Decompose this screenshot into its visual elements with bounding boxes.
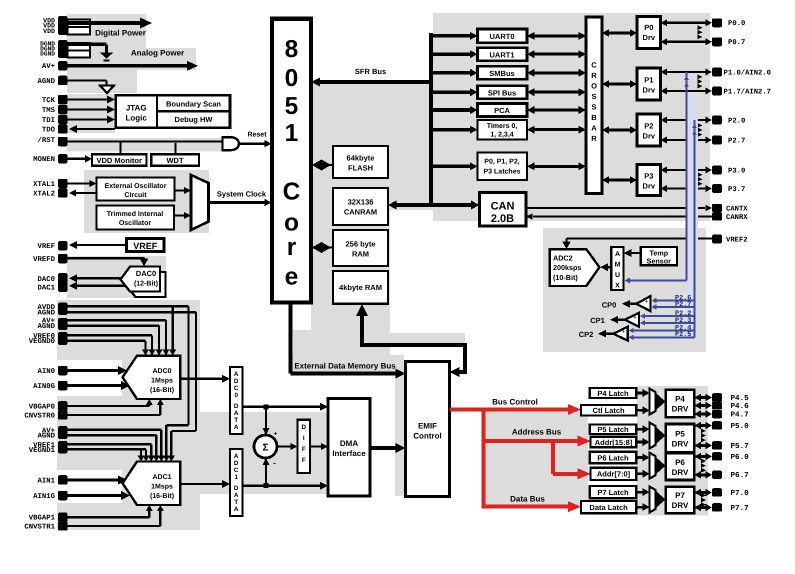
clock mux bbox=[191, 175, 209, 230]
svg-text:C: C bbox=[234, 385, 239, 392]
svg-text:o: o bbox=[284, 210, 299, 237]
wire P5 latch b to funnel bbox=[636, 438, 649, 446]
pin P1.0/AIN2.0 bbox=[712, 68, 771, 78]
svg-text:C: C bbox=[283, 179, 301, 206]
pin AGND bbox=[37, 76, 67, 86]
svg-text:DRV: DRV bbox=[672, 405, 689, 414]
svg-text:Data Bus: Data Bus bbox=[510, 495, 545, 504]
pin P6.7 bbox=[712, 471, 749, 481]
svg-text:CANTX: CANTX bbox=[726, 205, 748, 213]
wire P0 pin top bbox=[661, 19, 713, 26]
pin TCK bbox=[42, 95, 68, 105]
label P2.7 bbox=[675, 301, 691, 309]
block ADC1 DATA bbox=[230, 449, 243, 516]
wire PCA to crossbar bbox=[527, 106, 586, 114]
wire latches to crossbar bbox=[527, 162, 586, 170]
wire UART0 to crossbar bbox=[527, 32, 586, 40]
block Addr[7:0] bbox=[591, 468, 637, 480]
svg-text:(16-Bit): (16-Bit) bbox=[150, 386, 174, 394]
pin P0.0 bbox=[712, 18, 745, 28]
reset gate bbox=[223, 137, 240, 150]
wire TCK bbox=[68, 96, 116, 104]
wire CP1 out bbox=[610, 316, 625, 324]
svg-text:Interface: Interface bbox=[332, 449, 366, 458]
svg-text:F: F bbox=[302, 446, 306, 453]
svg-text:Bus Control: Bus Control bbox=[492, 398, 538, 407]
block P7 DRV bbox=[666, 487, 695, 514]
label P2.5 bbox=[675, 331, 691, 339]
wire /RST bbox=[68, 140, 224, 142]
pin VREF bbox=[37, 241, 67, 251]
wire CP0 out bbox=[622, 300, 636, 308]
wire UART1 to crossbar bbox=[527, 50, 586, 58]
svg-text:1: 1 bbox=[234, 474, 238, 481]
label P2.3 bbox=[675, 317, 691, 325]
svg-text:D: D bbox=[302, 424, 307, 431]
svg-text:AGND: AGND bbox=[37, 433, 55, 441]
blue wire P2.2 bbox=[640, 313, 695, 319]
svg-text:64kbyte: 64kbyte bbox=[347, 154, 375, 163]
P5 merge funnel bbox=[650, 423, 666, 449]
wire CNVSTR0 bbox=[68, 399, 164, 415]
wire CANRX bbox=[526, 213, 712, 220]
wire crossbar to P2 bbox=[602, 126, 637, 134]
svg-text:DAC1: DAC1 bbox=[37, 284, 55, 292]
blue tint band bbox=[676, 93, 698, 340]
svg-text:Digital Power: Digital Power bbox=[95, 29, 146, 38]
svg-text:A: A bbox=[234, 453, 239, 460]
svg-text:A: A bbox=[234, 506, 239, 513]
wire XTAL1 bbox=[68, 180, 97, 187]
wire P4 DRV pin P4.6 bbox=[694, 402, 712, 409]
svg-text:Σ: Σ bbox=[262, 443, 268, 454]
wire DIFF to DMA bbox=[310, 443, 328, 450]
P7 pins ellipsis bbox=[701, 493, 706, 507]
svg-text:200ksps: 200ksps bbox=[553, 263, 581, 272]
svg-text:System Clock: System Clock bbox=[217, 189, 267, 198]
pin P2.0 bbox=[712, 116, 745, 126]
svg-text:P2.5: P2.5 bbox=[675, 331, 691, 339]
svg-text:EMIF: EMIF bbox=[418, 421, 437, 430]
pin P4.5 bbox=[712, 393, 749, 403]
pin VDD x3 bbox=[43, 16, 67, 35]
svg-text:P6.7: P6.7 bbox=[731, 471, 750, 480]
svg-text:FLASH: FLASH bbox=[348, 164, 373, 173]
svg-text:1Msps: 1Msps bbox=[151, 484, 173, 491]
label CP2 bbox=[579, 330, 594, 339]
pin P7.0 bbox=[712, 488, 749, 498]
svg-text:A: A bbox=[615, 251, 620, 258]
svg-text:5: 5 bbox=[285, 93, 299, 120]
svg-text:VEGND0: VEGND0 bbox=[29, 338, 55, 346]
red bus control line bbox=[450, 404, 581, 415]
wire crossbar to P0 bbox=[602, 29, 637, 37]
svg-text:R: R bbox=[591, 71, 597, 80]
svg-text:D: D bbox=[234, 403, 239, 410]
pin AIN1 bbox=[37, 475, 67, 485]
P6 pins ellipsis bbox=[701, 459, 706, 473]
wire CANRAM to CAN bbox=[388, 201, 480, 210]
svg-text:CP2: CP2 bbox=[579, 330, 594, 339]
svg-text:P5 Latch: P5 Latch bbox=[597, 425, 629, 434]
svg-text:P7.7: P7.7 bbox=[731, 505, 750, 513]
wire P1 pin top bbox=[661, 69, 713, 76]
wire ADC0 to ADC0 DATA bbox=[180, 375, 230, 383]
wire trunk to SPI bbox=[429, 88, 478, 96]
svg-text:P7: P7 bbox=[675, 491, 685, 500]
ADC1 supply wires bbox=[68, 430, 165, 462]
P5 pins ellipsis bbox=[701, 429, 706, 443]
svg-text:C: C bbox=[234, 467, 239, 474]
wire P7 latch b to funnel bbox=[636, 503, 649, 511]
wire AMUX to ADC2 bbox=[600, 263, 611, 271]
svg-text:External Oscillator: External Oscillator bbox=[105, 182, 167, 190]
wire DAC1 out bbox=[69, 282, 126, 290]
block WDT bbox=[151, 154, 199, 166]
block P1 Drv bbox=[637, 68, 661, 100]
VDD slot leads bbox=[68, 20, 91, 35]
block P5 DRV bbox=[666, 424, 695, 453]
block DMA Interface bbox=[328, 399, 370, 497]
svg-text:CAN: CAN bbox=[491, 201, 515, 213]
wire ADC0 DATA to DMA bbox=[243, 403, 329, 411]
svg-text:CP1: CP1 bbox=[590, 316, 605, 325]
svg-text:P5: P5 bbox=[675, 429, 685, 438]
block P6 Latch bbox=[590, 452, 637, 464]
block 64kbyte FLASH bbox=[333, 146, 388, 178]
block VREF bbox=[126, 239, 164, 252]
pin P4.6 bbox=[712, 401, 749, 411]
blue wire P2.5 bbox=[629, 335, 695, 341]
comparator CP0 bbox=[636, 296, 650, 312]
block Boundary Scan bbox=[157, 100, 230, 112]
wire CANTX bbox=[526, 205, 712, 211]
svg-text:P4.6: P4.6 bbox=[731, 402, 750, 411]
ADC0 bbox=[123, 356, 181, 399]
P1 pins ellipsis bbox=[698, 75, 703, 89]
block External Oscillator Circuit bbox=[97, 178, 175, 201]
wire stub to VDD monitor bbox=[120, 142, 122, 155]
svg-text:-: - bbox=[273, 459, 276, 468]
wire DMA to EMIF bbox=[370, 443, 406, 453]
pin P3.0 bbox=[712, 166, 745, 176]
svg-text:VEGND1: VEGND1 bbox=[29, 447, 56, 455]
label System Clock bbox=[217, 189, 267, 198]
block P4 DRV bbox=[666, 390, 695, 418]
svg-text:+: + bbox=[622, 329, 625, 335]
svg-text:1Msps: 1Msps bbox=[151, 378, 173, 385]
svg-text:0: 0 bbox=[234, 392, 238, 399]
pin XTAL1 bbox=[33, 179, 67, 189]
pin TDO bbox=[42, 124, 68, 134]
wire VREF bbox=[69, 241, 126, 249]
pin CANTX bbox=[712, 204, 748, 214]
svg-text:Drv: Drv bbox=[643, 33, 656, 42]
svg-text:P7 Latch: P7 Latch bbox=[597, 488, 629, 497]
P7 merge funnel bbox=[650, 487, 666, 513]
pin P1.7/AIN2.7 bbox=[712, 87, 771, 97]
svg-text:2.0B: 2.0B bbox=[491, 213, 514, 225]
pin AV+ AGND 0 bbox=[37, 318, 67, 331]
svg-text:VBGAP0: VBGAP0 bbox=[29, 403, 55, 411]
wire DAC0 out bbox=[69, 274, 121, 282]
wire P3 pin bottom bbox=[661, 185, 713, 192]
red address bus line bbox=[482, 436, 591, 447]
blue wire P2.7 bbox=[652, 304, 695, 310]
svg-text:ADC2: ADC2 bbox=[553, 253, 573, 262]
pin AV+ AGND 1 bbox=[37, 426, 67, 441]
svg-text:MONEN: MONEN bbox=[33, 156, 55, 164]
wire VREFD bbox=[68, 258, 149, 267]
svg-text:/RST: /RST bbox=[37, 136, 55, 145]
svg-text:P5.7: P5.7 bbox=[731, 443, 750, 451]
svg-text:0: 0 bbox=[285, 65, 299, 92]
svg-text:UART0: UART0 bbox=[489, 32, 514, 41]
wire P4 DRV pin P4.5 bbox=[694, 394, 712, 401]
svg-text:P2: P2 bbox=[644, 122, 653, 131]
pin AV+ bbox=[42, 61, 68, 71]
svg-text:P3: P3 bbox=[644, 172, 653, 181]
ADC2 bbox=[550, 249, 600, 286]
block CROSSBAR bbox=[586, 17, 602, 194]
block P3 Drv bbox=[637, 165, 661, 196]
svg-text:Control: Control bbox=[413, 431, 441, 440]
svg-text:R: R bbox=[591, 134, 597, 143]
wire AIN1G bbox=[68, 491, 131, 500]
pin /RST bbox=[37, 136, 67, 146]
comparator CP2 bbox=[613, 327, 627, 343]
blue wire P2 to comparators bbox=[692, 120, 697, 337]
label P2.4 bbox=[675, 324, 691, 332]
svg-text:VREF: VREF bbox=[133, 241, 158, 251]
P4 merge funnel bbox=[650, 389, 666, 415]
ADC1 bbox=[123, 462, 181, 506]
svg-text:P6 Latch: P6 Latch bbox=[597, 453, 629, 462]
svg-text:Trimmed Internal: Trimmed Internal bbox=[107, 210, 163, 218]
wire P4 DRV pin P4.7 bbox=[694, 410, 712, 418]
wire to sigma plus bbox=[263, 407, 270, 435]
svg-text:TDI: TDI bbox=[42, 117, 55, 125]
pin P5.7 bbox=[712, 441, 749, 451]
svg-text:Timers 0,: Timers 0, bbox=[487, 122, 518, 130]
SFR bus line bbox=[311, 78, 431, 87]
wire reset to core bbox=[239, 140, 272, 148]
wire temp sensor to AMUX bbox=[624, 249, 641, 257]
wire trunk to SMBus bbox=[429, 69, 478, 77]
label CP1 bbox=[590, 316, 605, 325]
pin DGND x3 bbox=[40, 40, 67, 58]
label External Data Memory Bus bbox=[294, 362, 396, 371]
svg-text:VDD: VDD bbox=[43, 28, 55, 35]
svg-text:P2.7: P2.7 bbox=[728, 137, 745, 145]
label Address Bus bbox=[512, 428, 562, 437]
wire trunk to Timers bbox=[429, 126, 478, 134]
svg-text:DGND: DGND bbox=[40, 50, 55, 57]
block SMBus bbox=[478, 66, 528, 79]
wire P2 pin bottom bbox=[661, 137, 713, 144]
pin VREF0 VEGND0 bbox=[29, 332, 68, 346]
wire crossbar to P3 bbox=[602, 176, 637, 184]
wire P0 pin bottom bbox=[661, 38, 713, 45]
svg-text:TMS: TMS bbox=[42, 107, 56, 115]
wire CP2 out bbox=[598, 330, 614, 338]
label Analog Power bbox=[131, 48, 184, 57]
svg-text:C: C bbox=[591, 61, 597, 70]
pin P7.7 bbox=[712, 503, 749, 513]
wire P6 latch b to funnel bbox=[636, 470, 649, 478]
wire TDO bbox=[69, 125, 115, 133]
svg-text:256 byte: 256 byte bbox=[345, 240, 375, 249]
pin AIN0G bbox=[33, 381, 67, 391]
wire trunk to latches bbox=[429, 162, 478, 170]
block SPI Bus bbox=[478, 86, 528, 99]
wire SMBus to crossbar bbox=[527, 69, 586, 77]
svg-text:CANRX: CANRX bbox=[726, 214, 748, 222]
svg-text:TCK: TCK bbox=[42, 97, 56, 105]
svg-text:CNVSTR1: CNVSTR1 bbox=[24, 523, 55, 531]
wire trunk to UART0 bbox=[429, 32, 478, 40]
svg-text:1, 2,3,4: 1, 2,3,4 bbox=[490, 131, 513, 138]
svg-text:CP0: CP0 bbox=[602, 300, 617, 309]
red address low branch bbox=[553, 439, 591, 479]
svg-text:e: e bbox=[285, 264, 299, 291]
svg-text:PCA: PCA bbox=[494, 106, 510, 115]
block P5 Latch bbox=[590, 424, 637, 434]
svg-text:P4.5: P4.5 bbox=[731, 395, 750, 403]
svg-text:I: I bbox=[303, 435, 305, 442]
wire ADC1 DATA to DMA bbox=[243, 482, 329, 490]
svg-text:Sensor: Sensor bbox=[647, 256, 672, 265]
wire P5 DRV pin P5.0 bbox=[694, 422, 712, 429]
blue wire AIN2 to AMUX bbox=[625, 72, 690, 284]
pin AIN1G bbox=[33, 491, 67, 501]
wire AIN0 bbox=[68, 366, 128, 375]
wire stub to WDT bbox=[175, 143, 177, 155]
svg-text:4kbyte RAM: 4kbyte RAM bbox=[339, 283, 382, 292]
svg-text:CANRAM: CANRAM bbox=[344, 208, 377, 217]
background shaded regions bbox=[57, 13, 710, 530]
svg-text:Analog Power: Analog Power bbox=[131, 48, 184, 57]
wire P7 latch a to funnel bbox=[636, 488, 649, 496]
analog ground symbol bbox=[68, 80, 115, 93]
block JTAG Logic bbox=[116, 95, 230, 128]
svg-text:TDO: TDO bbox=[42, 126, 56, 134]
block P7 Latch bbox=[590, 486, 637, 498]
svg-text:DAC0: DAC0 bbox=[136, 269, 156, 278]
svg-text:SMBus: SMBus bbox=[489, 69, 514, 78]
block AMUX bbox=[611, 247, 623, 290]
core 8051 bbox=[272, 19, 311, 303]
label SFR Bus bbox=[355, 67, 386, 76]
svg-text:P4: P4 bbox=[675, 395, 685, 404]
DGND slot leads bbox=[68, 43, 91, 58]
svg-text:-: - bbox=[646, 307, 648, 313]
svg-text:DMA: DMA bbox=[340, 439, 358, 448]
svg-text:A: A bbox=[591, 124, 597, 133]
svg-text:A: A bbox=[234, 371, 239, 378]
svg-text:AGND: AGND bbox=[37, 78, 55, 86]
pin VREF2 bbox=[712, 235, 748, 245]
svg-text:M: M bbox=[615, 262, 621, 269]
svg-text:AIN1: AIN1 bbox=[37, 477, 55, 485]
wire P4 latch a to funnel bbox=[636, 389, 649, 397]
svg-text:VREF: VREF bbox=[37, 243, 55, 251]
svg-text:DRV: DRV bbox=[672, 501, 689, 510]
wire P6 DRV pin P6.7 bbox=[694, 471, 712, 479]
svg-text:Drv: Drv bbox=[643, 132, 656, 141]
label Bus Control bbox=[492, 398, 538, 407]
block Temp Sensor bbox=[641, 247, 677, 265]
pin TMS bbox=[42, 105, 68, 115]
blue wire P2.6 bbox=[652, 298, 695, 303]
wire VBGAP1 bbox=[68, 505, 153, 517]
pin MONEN bbox=[33, 154, 67, 164]
svg-text:VREF2: VREF2 bbox=[726, 236, 748, 244]
svg-text:External Data Memory Bus: External Data Memory Bus bbox=[294, 362, 396, 371]
P2 pins ellipsis bbox=[698, 123, 703, 137]
wire P5 latch a to funnel bbox=[636, 425, 649, 433]
wire EMIF to 4kbyte RAM bbox=[356, 304, 467, 377]
block Timers bbox=[478, 120, 528, 140]
P0 pins ellipsis bbox=[698, 25, 703, 39]
block Addr[15:8] bbox=[591, 437, 637, 448]
pin P6.0 bbox=[712, 452, 749, 462]
svg-text:(10-Bit): (10-Bit) bbox=[553, 273, 578, 282]
svg-text:AGND: AGND bbox=[37, 310, 55, 318]
block EMIF Control bbox=[406, 362, 450, 497]
pin AIN0 bbox=[37, 366, 67, 376]
svg-text:T: T bbox=[234, 499, 238, 506]
wire to sigma minus bbox=[263, 458, 270, 486]
svg-text:P6.0: P6.0 bbox=[731, 453, 750, 462]
pin VBGAP0 bbox=[29, 401, 68, 411]
svg-text:T: T bbox=[234, 417, 238, 424]
label Reset bbox=[247, 132, 267, 139]
svg-text:Drv: Drv bbox=[643, 182, 656, 191]
block 32X136 CANRAM bbox=[333, 188, 388, 225]
wire AIN0G bbox=[68, 381, 131, 390]
svg-text:CNVSTR0: CNVSTR0 bbox=[24, 412, 55, 420]
svg-text:P0.7: P0.7 bbox=[728, 39, 745, 47]
label P2.6 bbox=[675, 294, 691, 302]
svg-text:DRV: DRV bbox=[672, 468, 689, 477]
svg-text:P1.7/AIN2.7: P1.7/AIN2.7 bbox=[724, 87, 771, 96]
block Ctl Latch bbox=[581, 405, 636, 416]
svg-text:P0.0: P0.0 bbox=[728, 20, 745, 28]
svg-text:P5.0: P5.0 bbox=[731, 422, 750, 431]
svg-text:DAC0: DAC0 bbox=[37, 276, 55, 284]
wire P4 latch b to funnel bbox=[636, 406, 649, 414]
svg-text:WDT: WDT bbox=[166, 156, 183, 165]
pin P2.7 bbox=[712, 136, 745, 146]
wire P6 DRV pin P6.0 bbox=[694, 453, 712, 460]
svg-text:RAM: RAM bbox=[352, 250, 369, 259]
block UART1 bbox=[478, 48, 528, 61]
wire TMS bbox=[68, 106, 116, 114]
ADC0 supply wires bbox=[68, 306, 197, 461]
sigma adder bbox=[254, 432, 278, 468]
wire VREF2 bbox=[562, 239, 712, 249]
svg-text:AV+: AV+ bbox=[42, 63, 56, 71]
diamond core-ram bbox=[311, 242, 333, 253]
block P6 DRV bbox=[666, 453, 695, 480]
AV+ power arrow bbox=[68, 61, 199, 71]
wire ADC1 to ADC1 DATA bbox=[180, 480, 230, 488]
block P0 Drv bbox=[637, 17, 661, 49]
svg-text:P1: P1 bbox=[644, 76, 653, 85]
label P2.2 bbox=[675, 310, 691, 318]
pin CNVSTR0 bbox=[24, 410, 67, 420]
